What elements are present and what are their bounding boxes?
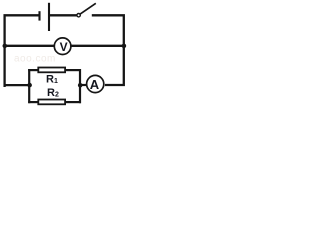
battery cell (long plate) <box>48 3 50 31</box>
wire battery to switch <box>50 14 77 16</box>
switch S lever <box>80 3 96 14</box>
wire bottom feed left <box>5 84 30 86</box>
battery cell (short plate) <box>38 11 40 20</box>
node junction left of parallel block <box>27 83 32 88</box>
svg-text:R1: R1 <box>46 74 58 86</box>
voltmeter U1 circle <box>54 38 71 55</box>
wire R2 row left stub <box>28 101 38 103</box>
wire parallel-block right side <box>79 69 81 103</box>
node junction left of V row <box>3 44 8 49</box>
resistor R1 box <box>38 68 65 73</box>
wire voltmeter row left <box>5 45 54 47</box>
node junction right of V row <box>122 44 127 49</box>
wire node to ammeter <box>80 84 88 86</box>
wire switch to top-right corner and right side down <box>92 15 124 85</box>
node junction right of parallel block <box>78 83 83 88</box>
svg-text:V: V <box>60 40 68 54</box>
wire top-left segment <box>5 15 39 87</box>
wire R2 row right stub <box>66 101 82 103</box>
wire parallel-block left side <box>28 69 30 103</box>
resistor R2 box <box>38 100 65 105</box>
wire R1 row left stub <box>28 69 38 71</box>
ammeter U2 circle <box>87 75 104 92</box>
svg-text:A: A <box>90 77 100 92</box>
switch S pivot <box>77 14 80 17</box>
svg-text:aoo.com: aoo.com <box>14 54 56 65</box>
wire R1 row right stub <box>66 69 82 71</box>
wire voltmeter row right <box>71 45 124 47</box>
svg-text:R2: R2 <box>47 87 59 99</box>
